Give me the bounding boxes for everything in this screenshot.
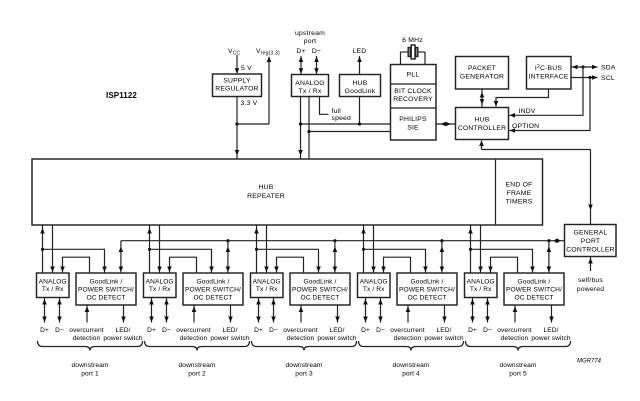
wire upstream D+ bidirectional xyxy=(299,56,304,75)
node junction port 2 feed xyxy=(148,248,151,251)
crystal value 6 MHz xyxy=(402,37,423,44)
figure reference MGR774 xyxy=(577,359,602,365)
port 2 analog Tx/Rx box xyxy=(144,273,177,298)
wire port 5 feed to power switch xyxy=(471,249,535,273)
svg-text:OC DETECT: OC DETECT xyxy=(515,295,554,302)
node junction port 1 feed xyxy=(41,248,44,251)
wire bus to Philips SIE 2 xyxy=(309,131,391,133)
svg-text:detection: detection xyxy=(287,335,315,342)
wire port 4 LED/power switch output xyxy=(442,305,447,323)
wire LED output xyxy=(357,56,362,75)
wire port 3 LED/power switch output xyxy=(335,305,340,323)
svg-text:port: port xyxy=(304,38,317,45)
port 5 GoodLink/power switch/OC detect box xyxy=(504,273,564,305)
wire I2C interface to hub controller xyxy=(494,89,549,107)
svg-text:SDA: SDA xyxy=(601,65,616,72)
port 2 GoodLink/power switch/OC detect box xyxy=(183,273,243,305)
svg-text:BIT CLOCK: BIT CLOCK xyxy=(394,88,432,95)
port 2 LED/power switch label xyxy=(210,327,250,342)
wire port 5 bus bidirectional xyxy=(547,241,552,273)
svg-text:port 2: port 2 xyxy=(188,371,206,378)
svg-text:OC DETECT: OC DETECT xyxy=(408,295,447,302)
wire port 2 goodlink to analog bridge xyxy=(167,257,196,273)
svg-text:LED/: LED/ xyxy=(222,327,237,334)
port 3 D- pin label xyxy=(269,327,278,334)
wire self/bus powered input xyxy=(588,257,593,272)
svg-text:Tx / Rx: Tx / Rx xyxy=(149,286,171,293)
port 1 D- pin label xyxy=(55,327,64,334)
port 2 D+ pin label xyxy=(147,327,156,334)
port 4 overcurrent detection label xyxy=(390,327,425,342)
svg-text:D−: D− xyxy=(312,48,321,55)
svg-text:detection: detection xyxy=(180,335,208,342)
svg-text:SUPPLY: SUPPLY xyxy=(223,78,251,85)
wire hub GoodLink down to bus xyxy=(359,97,361,125)
node junction port 2 bus tap xyxy=(226,239,229,242)
port 4 analog Tx/Rx box xyxy=(358,273,391,298)
wire port 1 D+ bidirectional xyxy=(42,298,47,323)
wire port 5 overcurrent detection input xyxy=(513,305,518,323)
svg-text:ANALOG: ANALOG xyxy=(295,80,325,87)
upstream D- pin label xyxy=(312,48,321,55)
value label 3.3 V xyxy=(241,100,258,107)
port 4 D- pin label xyxy=(376,327,385,334)
wire port 4 overcurrent detection input xyxy=(406,305,411,323)
supply regulator label xyxy=(215,78,258,93)
svg-text:downstream: downstream xyxy=(286,362,323,369)
port 2 D- pin label xyxy=(162,327,171,334)
port 4 GoodLink label xyxy=(399,279,455,302)
svg-text:D+: D+ xyxy=(40,327,49,334)
svg-text:HUB: HUB xyxy=(259,184,274,191)
INDV option label xyxy=(519,108,536,115)
svg-text:Tx / Rx: Tx / Rx xyxy=(256,286,278,293)
upstream port label xyxy=(295,30,325,45)
PLL label xyxy=(407,72,420,79)
port 1 GoodLink label xyxy=(78,279,134,302)
svg-text:Vreg(3.3): Vreg(3.3) xyxy=(256,48,280,57)
svg-text:FRAME: FRAME xyxy=(507,190,532,197)
svg-text:GoodLink: GoodLink xyxy=(345,88,376,95)
svg-text:SCL: SCL xyxy=(601,75,615,82)
wire port 1 feed to power switch xyxy=(43,249,107,273)
svg-text:GoodLink /: GoodLink / xyxy=(90,279,123,286)
svg-text:POWER SWITCH/: POWER SWITCH/ xyxy=(292,287,348,294)
svg-text:D+: D+ xyxy=(254,327,263,334)
port 3 D+ pin label xyxy=(254,327,263,334)
svg-text:overcurrent: overcurrent xyxy=(69,327,104,334)
hub GoodLink box xyxy=(340,75,381,97)
svg-text:port 1: port 1 xyxy=(81,371,99,378)
svg-text:Tx / Rx: Tx / Rx xyxy=(470,286,492,293)
node junction GoodLink bus xyxy=(358,122,361,125)
svg-text:5 V: 5 V xyxy=(241,65,252,72)
svg-text:LED/: LED/ xyxy=(115,327,130,334)
svg-text:ANALOG: ANALOG xyxy=(467,279,495,286)
wire port 3 upstream data into repeater xyxy=(254,225,259,273)
end of frame timers label xyxy=(506,182,533,206)
hub GoodLink label xyxy=(345,80,376,95)
wire port 1 D- bidirectional xyxy=(57,298,62,323)
svg-text:I2C-BUS: I2C-BUS xyxy=(535,64,562,72)
svg-text:power switch: power switch xyxy=(210,335,250,342)
Vreg(3.3) pin label xyxy=(256,48,280,57)
hub controller box xyxy=(456,108,509,140)
wire SCL xyxy=(571,75,598,80)
port 2 overcurrent detection label xyxy=(176,327,211,342)
node junction port 4 bus tap xyxy=(440,239,443,242)
wire SDA bidirectional xyxy=(571,65,598,70)
hub repeater label xyxy=(247,184,285,200)
hub controller label xyxy=(458,117,506,133)
svg-text:full: full xyxy=(332,108,342,115)
wire port 4 D- bidirectional xyxy=(378,298,383,323)
I2C-bus interface label xyxy=(529,64,569,81)
packet generator box xyxy=(456,57,509,90)
LED pin label xyxy=(353,48,367,55)
svg-text:downstream: downstream xyxy=(500,362,537,369)
svg-text:Tx / Rx: Tx / Rx xyxy=(42,286,64,293)
wire port 2 LED/power switch output xyxy=(228,305,233,323)
svg-text:OC DETECT: OC DETECT xyxy=(301,295,340,302)
wire hub controller to general port controller xyxy=(479,141,593,225)
wire port 2 feed to power switch xyxy=(150,249,214,273)
svg-text:D+: D+ xyxy=(296,48,305,55)
port 3 GoodLink/power switch/OC detect box xyxy=(290,273,350,305)
svg-text:ISP1122: ISP1122 xyxy=(106,91,137,100)
port 5 GoodLink label xyxy=(506,279,562,302)
wire port 5 data from repeater xyxy=(478,225,483,273)
wire port 4 feed to power switch xyxy=(364,249,428,273)
wire port 5 D+ bidirectional xyxy=(470,298,475,323)
svg-text:port 4: port 4 xyxy=(402,371,420,378)
svg-text:power switch: power switch xyxy=(531,335,571,342)
svg-text:self/bus: self/bus xyxy=(578,277,603,284)
PLL / bit clock recovery / SIE stack box xyxy=(391,65,437,141)
node junction upstream bus 2 xyxy=(307,130,310,133)
port 3 LED/power switch label xyxy=(317,327,357,342)
svg-text:REGULATOR: REGULATOR xyxy=(215,86,258,93)
svg-text:detection: detection xyxy=(394,335,422,342)
svg-text:ANALOG: ANALOG xyxy=(253,279,281,286)
port 2 analog Tx/Rx label xyxy=(146,279,174,294)
self/bus powered label xyxy=(577,277,604,293)
svg-text:power switch: power switch xyxy=(424,335,464,342)
wire port control bus xyxy=(121,238,565,243)
svg-text:OPTION: OPTION xyxy=(512,123,539,130)
svg-text:3.3 V: 3.3 V xyxy=(241,100,258,107)
svg-text:GENERATOR: GENERATOR xyxy=(460,74,504,81)
wire port 1 bus bidirectional xyxy=(119,241,124,273)
svg-text:GoodLink /: GoodLink / xyxy=(304,279,337,286)
svg-text:HUB: HUB xyxy=(475,117,490,124)
wire port 3 bus bidirectional xyxy=(333,241,338,273)
port 1 overcurrent detection label xyxy=(69,327,104,342)
node junction on 3.3V wire xyxy=(235,122,238,125)
wire VCC into supply regulator xyxy=(235,55,240,74)
svg-text:CONTROLLER: CONTROLLER xyxy=(458,125,506,132)
svg-text:LED/: LED/ xyxy=(329,327,344,334)
port 5 LED/power switch label xyxy=(531,327,571,342)
svg-text:Tx / Rx: Tx / Rx xyxy=(299,88,322,95)
wire port 4 goodlink to analog bridge xyxy=(381,257,410,273)
wire port 5 goodlink to analog bridge xyxy=(488,257,517,273)
svg-text:RECOVERY: RECOVERY xyxy=(393,96,433,103)
wire packet generator / hub controller bidirectional xyxy=(480,89,485,108)
SDA pin label xyxy=(601,65,616,72)
wire port 1 goodlink to analog bridge xyxy=(60,257,89,273)
svg-text:Tx / Rx: Tx / Rx xyxy=(363,286,385,293)
svg-text:upstream: upstream xyxy=(295,30,325,37)
svg-text:power switch: power switch xyxy=(103,335,143,342)
port 5 downstream label xyxy=(500,362,537,378)
port 4 downstream label xyxy=(393,362,430,378)
svg-text:MGR774: MGR774 xyxy=(577,359,602,365)
upstream D+ pin label xyxy=(296,48,305,55)
svg-text:OC DETECT: OC DETECT xyxy=(194,295,233,302)
supply regulator U1 box xyxy=(213,74,262,97)
node junction upstream bus 1 xyxy=(299,122,302,125)
wire upstream D- bidirectional xyxy=(314,56,319,75)
wire OPTION from SCL node xyxy=(510,78,591,133)
SCL pin label xyxy=(601,75,615,82)
svg-text:LED: LED xyxy=(353,48,367,55)
svg-text:GoodLink /: GoodLink / xyxy=(197,279,230,286)
svg-text:6 MHz: 6 MHz xyxy=(402,37,423,44)
wire port 4 bus bidirectional xyxy=(440,241,445,273)
wire port 4 D+ bidirectional xyxy=(363,298,368,323)
wire port 1 upstream data into repeater xyxy=(40,225,45,273)
wire port 1 data from repeater xyxy=(50,225,55,273)
port 2 brace xyxy=(145,341,250,351)
port 2 downstream label xyxy=(179,362,216,378)
svg-text:ANALOG: ANALOG xyxy=(360,279,388,286)
svg-text:PHILIPS: PHILIPS xyxy=(399,116,427,123)
port 4 GoodLink/power switch/OC detect box xyxy=(397,273,457,305)
full speed label xyxy=(332,108,352,122)
svg-text:D−: D− xyxy=(269,327,278,334)
svg-text:downstream: downstream xyxy=(393,362,430,369)
VCC pin label xyxy=(228,48,241,57)
svg-text:TIMERS: TIMERS xyxy=(506,199,533,206)
svg-text:overcurrent: overcurrent xyxy=(497,327,532,334)
svg-text:POWER SWITCH/: POWER SWITCH/ xyxy=(399,287,455,294)
svg-text:PORT: PORT xyxy=(581,238,601,245)
wire port 5 D- bidirectional xyxy=(485,298,490,323)
svg-text:INTERFACE: INTERFACE xyxy=(529,74,569,81)
general port controller label xyxy=(566,230,614,254)
port 3 analog Tx/Rx box xyxy=(251,273,284,298)
svg-text:D−: D− xyxy=(376,327,385,334)
wire INDV from SDA node xyxy=(510,67,584,118)
svg-text:detection: detection xyxy=(73,335,101,342)
wire port 3 D- bidirectional xyxy=(271,298,276,323)
port 1 downstream label xyxy=(72,362,109,378)
port 1 LED/power switch label xyxy=(103,327,143,342)
port 4 LED/power switch label xyxy=(424,327,464,342)
svg-text:detection: detection xyxy=(501,335,529,342)
value label 5 V xyxy=(241,65,252,72)
end of frame timers divider xyxy=(495,159,497,225)
svg-text:D−: D− xyxy=(162,327,171,334)
wire port 1 LED/power switch output xyxy=(121,305,126,323)
port 5 analog Tx/Rx label xyxy=(467,279,495,294)
port 3 brace xyxy=(252,341,357,351)
wire upstream to hub repeater 2 xyxy=(308,97,310,159)
wire port 5 LED/power switch output xyxy=(549,305,554,323)
wire port 2 D+ bidirectional xyxy=(149,298,154,323)
port 4 brace xyxy=(359,341,464,351)
wire port 2 data from repeater xyxy=(157,225,162,273)
svg-text:D−: D− xyxy=(55,327,64,334)
upstream analog Tx/Rx box xyxy=(292,75,329,97)
svg-text:ANALOG: ANALOG xyxy=(146,279,174,286)
svg-text:port 5: port 5 xyxy=(509,371,527,378)
svg-text:D+: D+ xyxy=(361,327,370,334)
node junction SCL xyxy=(588,76,591,79)
svg-text:PLL: PLL xyxy=(407,72,420,79)
bit clock recovery label xyxy=(393,88,433,103)
wire supply regulator to hub repeater xyxy=(235,97,240,159)
svg-text:VCC: VCC xyxy=(228,48,241,57)
port 3 overcurrent detection label xyxy=(283,327,318,342)
svg-text:END OF: END OF xyxy=(506,182,533,189)
svg-text:D−: D− xyxy=(483,327,492,334)
wire bus to Philips SIE 1 xyxy=(301,123,391,125)
svg-text:D+: D+ xyxy=(147,327,156,334)
svg-text:GoodLink /: GoodLink / xyxy=(411,279,444,286)
upstream analog Tx/Rx label xyxy=(295,80,325,95)
svg-text:downstream: downstream xyxy=(179,362,216,369)
port 5 brace xyxy=(466,341,571,351)
wire port 2 upstream data into repeater xyxy=(147,225,152,273)
port 5 D+ pin label xyxy=(468,327,477,334)
wire port 3 D+ bidirectional xyxy=(256,298,261,323)
svg-text:ANALOG: ANALOG xyxy=(39,279,67,286)
node junction port 4 feed xyxy=(362,248,365,251)
svg-text:D+: D+ xyxy=(468,327,477,334)
port 1 analog Tx/Rx box xyxy=(37,273,70,298)
svg-text:POWER SWITCH/: POWER SWITCH/ xyxy=(185,287,241,294)
I2C-bus interface box xyxy=(527,57,572,90)
wire port 2 overcurrent detection input xyxy=(192,305,197,323)
port 4 D+ pin label xyxy=(361,327,370,334)
svg-text:overcurrent: overcurrent xyxy=(176,327,211,334)
wire port 1 overcurrent detection input xyxy=(85,305,90,323)
svg-text:GoodLink /: GoodLink / xyxy=(518,279,551,286)
svg-text:PACKET: PACKET xyxy=(468,65,496,72)
svg-text:port 3: port 3 xyxy=(295,371,313,378)
svg-text:speed: speed xyxy=(332,115,352,122)
svg-text:powered: powered xyxy=(577,286,604,293)
port 1 analog Tx/Rx label xyxy=(39,279,67,294)
port 3 GoodLink label xyxy=(292,279,348,302)
svg-text:OC DETECT: OC DETECT xyxy=(87,295,126,302)
port 5 overcurrent detection label xyxy=(497,327,532,342)
node junction SDA xyxy=(581,65,584,68)
port 1 brace xyxy=(38,341,143,351)
svg-text:overcurrent: overcurrent xyxy=(390,327,425,334)
wire SIE / hub controller bidirectional xyxy=(436,122,456,127)
packet generator label xyxy=(460,65,504,81)
OPTION label xyxy=(512,123,539,130)
wire port 3 feed to power switch xyxy=(257,249,321,273)
hub repeater box xyxy=(32,159,543,225)
port 3 analog Tx/Rx label xyxy=(253,279,281,294)
wire port 5 upstream data into repeater xyxy=(468,225,473,273)
wire port 3 overcurrent detection input xyxy=(299,305,304,323)
wire port 4 data from repeater xyxy=(371,225,376,273)
node junction port 5 bus tap xyxy=(547,239,550,242)
svg-text:LED/: LED/ xyxy=(543,327,558,334)
svg-text:downstream: downstream xyxy=(72,362,109,369)
node junction port 5 feed xyxy=(469,248,472,251)
port 2 GoodLink label xyxy=(185,279,241,302)
wire port 2 D- bidirectional xyxy=(164,298,169,323)
svg-text:HUB: HUB xyxy=(353,80,368,87)
label ISP1122 xyxy=(106,91,137,100)
wire port 3 data from repeater xyxy=(264,225,269,273)
svg-text:GENERAL: GENERAL xyxy=(574,230,608,237)
general port controller box xyxy=(565,225,617,257)
port 1 GoodLink/power switch/OC detect box xyxy=(76,273,136,305)
wire port 4 upstream data into repeater xyxy=(361,225,366,273)
svg-text:REPEATER: REPEATER xyxy=(247,193,285,200)
wire upstream data to hub repeater xyxy=(298,97,303,159)
Philips SIE label xyxy=(399,116,427,132)
svg-text:POWER SWITCH/: POWER SWITCH/ xyxy=(506,287,562,294)
port 5 D- pin label xyxy=(483,327,492,334)
svg-text:SIE: SIE xyxy=(407,125,419,132)
wire port 2 bus bidirectional xyxy=(226,241,231,273)
node junction port 3 feed xyxy=(255,248,258,251)
wire full speed tap xyxy=(320,97,329,115)
port 5 analog Tx/Rx box xyxy=(465,273,498,298)
port 3 downstream label xyxy=(286,362,323,378)
svg-text:power switch: power switch xyxy=(317,335,357,342)
crystal X1 xyxy=(401,45,426,65)
svg-text:POWER SWITCH/: POWER SWITCH/ xyxy=(78,287,134,294)
svg-text:INDV: INDV xyxy=(519,108,536,115)
node junction port 3 bus tap xyxy=(333,239,336,242)
svg-text:LED/: LED/ xyxy=(436,327,451,334)
wire port 3 goodlink to analog bridge xyxy=(274,257,303,273)
port 1 D+ pin label xyxy=(40,327,49,334)
wire 3.3V to Vreg(3.3) output xyxy=(237,57,271,125)
port 4 analog Tx/Rx label xyxy=(360,279,388,294)
svg-text:CONTROLLER: CONTROLLER xyxy=(566,247,614,254)
svg-text:overcurrent: overcurrent xyxy=(283,327,318,334)
